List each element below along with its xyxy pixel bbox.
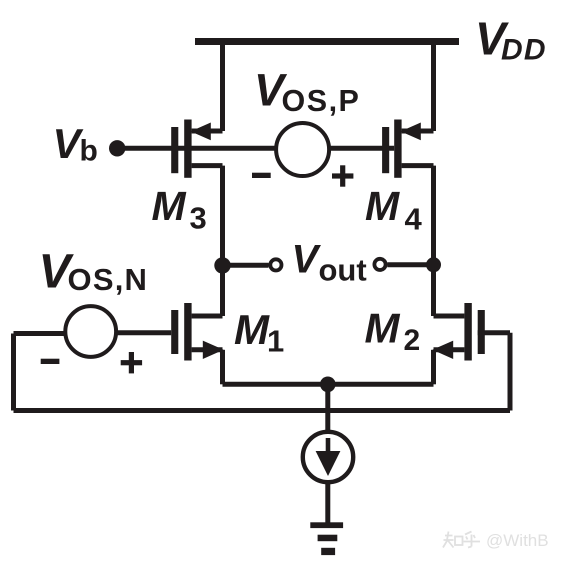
svg-text:3: 3 [190, 200, 207, 235]
wire M1 source line [192, 347, 223, 352]
current source arrow stem [326, 438, 331, 455]
wire M3 drain to M1 drain [220, 166, 225, 316]
minus sign of VOS,P [252, 173, 271, 178]
node dot Vout right [426, 257, 441, 272]
ground bar 2 [318, 535, 338, 542]
terminal open circle Vout left [270, 259, 281, 270]
transistor M3 channel bar [184, 120, 191, 178]
power rail VDD [195, 38, 459, 45]
wire M1 source down to tail [220, 350, 225, 385]
transistor M1 source arrow (NMOS) [203, 341, 224, 359]
transistor M2 channel bar [464, 303, 471, 361]
svg-text:M: M [365, 305, 401, 352]
wire VOS,N plus to M1 gate [116, 330, 171, 335]
transistor M4 channel bar [394, 120, 401, 178]
transistor M3 source arrow (PMOS) [191, 123, 211, 141]
wire M1 drain line [192, 314, 223, 319]
svg-text:OS,P: OS,P [282, 84, 361, 118]
wire M2 source down to tail [431, 350, 436, 385]
wire VOS,P plus to M4 gate [329, 146, 394, 151]
minus sign of VOS,N [41, 359, 60, 364]
svg-text:M: M [234, 306, 270, 353]
ground bar 3 [321, 548, 335, 555]
svg-text:V: V [292, 238, 322, 282]
plus sign of VOS,P [332, 165, 353, 186]
wire VDD to M4 source [431, 42, 436, 132]
wire M4 drain line [402, 163, 434, 168]
wire VOS,N minus to left bend [14, 331, 66, 336]
wire M4 drain to M2 drain [431, 166, 436, 316]
svg-text:OS,N: OS,N [68, 262, 149, 297]
current source circle [303, 432, 353, 482]
wire M4 source line [402, 129, 434, 134]
svg-text:b: b [80, 135, 98, 168]
svg-text:2: 2 [404, 324, 421, 357]
wire M3 source line [192, 129, 223, 134]
node dot Vb [109, 140, 125, 156]
transistor M3 gate bar [171, 127, 178, 173]
wire Vout right tap [387, 262, 433, 267]
wire M3 drain line [192, 163, 223, 168]
node dot tail junction [320, 377, 336, 393]
wire feedback bottom horizontal [14, 408, 511, 413]
wire feedback right vertical [508, 333, 513, 411]
wire gate line Vb to VOS,P [117, 146, 276, 151]
wire tail to current source [325, 384, 330, 432]
terminal open circle Vout right [374, 259, 385, 270]
svg-text:@WithB: @WithB [486, 531, 549, 550]
wire VDD to M3 source [220, 42, 225, 132]
transistor M4 source arrow (PMOS) [401, 123, 421, 141]
svg-text:1: 1 [267, 323, 284, 358]
watermark zhihu @WithB [443, 532, 480, 548]
svg-text:M: M [365, 183, 400, 229]
wire Vout left tap [223, 263, 269, 268]
svg-text:M: M [152, 183, 187, 229]
transistor M4 gate bar [382, 127, 389, 173]
wire feedback left vertical [11, 334, 16, 411]
svg-text:DD: DD [501, 34, 547, 67]
plus sign of VOS,N [121, 352, 142, 373]
svg-text:out: out [319, 252, 367, 287]
wire M2 source line [434, 347, 465, 352]
current source arrow head [316, 451, 341, 476]
transistor M1 channel bar [184, 303, 191, 361]
voltage source VOS,P circle [276, 123, 329, 176]
node dot Vout left [214, 257, 230, 273]
wire tail horizontal [223, 382, 434, 387]
transistor M2 source arrow (NMOS) [432, 341, 453, 359]
wire current source to ground [325, 484, 330, 523]
wire M2 drain line [434, 314, 465, 319]
voltage source VOS,N circle [65, 306, 116, 357]
ground bar 1 [310, 522, 343, 528]
transistor M2 gate bar [478, 310, 485, 354]
transistor M1 gate bar [171, 310, 178, 354]
wire M2 gate to right bend [478, 330, 510, 335]
svg-text:4: 4 [405, 202, 423, 237]
